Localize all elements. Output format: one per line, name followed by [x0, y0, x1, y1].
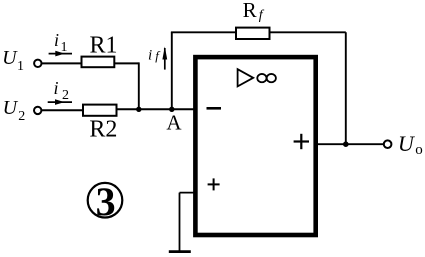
feedback wire top left	[171, 31, 236, 33]
svg-text:U: U	[398, 131, 416, 156]
wire R2 to op-amp inverting input	[117, 108, 196, 110]
terminal U2	[34, 107, 41, 114]
label U1	[2, 47, 24, 74]
terminal U1	[34, 60, 41, 67]
label Uo	[398, 131, 423, 158]
wire corner down to junction	[138, 62, 140, 109]
op-amp output plus sign	[294, 134, 309, 149]
wire node A up to feedback	[171, 32, 173, 109]
label if	[148, 47, 161, 63]
op-amp non-inverting input plus sign	[208, 178, 220, 190]
ground wire horizontal	[180, 192, 197, 194]
op-amp gain triangle	[238, 69, 254, 86]
figure number circle 3	[88, 179, 123, 224]
label U2	[3, 97, 26, 124]
wire R1 to corner	[114, 62, 139, 64]
current arrow i1	[49, 51, 72, 57]
terminal Uo	[384, 140, 392, 148]
wire U1 to R1	[42, 62, 82, 64]
output wire	[318, 143, 384, 145]
resistor R2	[83, 105, 117, 116]
svg-text:i: i	[54, 78, 59, 98]
feedback wire top right	[270, 31, 346, 33]
op-amp U1 body	[195, 57, 315, 235]
label i1	[54, 30, 68, 55]
svg-text:1: 1	[17, 59, 24, 74]
ground bar	[169, 250, 191, 253]
svg-text:3: 3	[96, 179, 116, 224]
svg-text:U: U	[3, 97, 19, 119]
junction dot	[136, 107, 141, 112]
svg-text:R2: R2	[89, 116, 117, 142]
node A dot	[169, 107, 174, 112]
op-amp inverting input minus sign	[207, 107, 222, 110]
wire U2 to R2	[42, 109, 83, 111]
current arrow i2	[48, 99, 72, 105]
svg-text:2: 2	[18, 109, 25, 124]
svg-text:R: R	[243, 0, 257, 22]
feedback wire down to output	[345, 32, 347, 144]
svg-text:2: 2	[62, 88, 69, 103]
svg-text:R1: R1	[90, 32, 118, 58]
svg-text:o: o	[415, 142, 423, 158]
resistor Rf	[236, 28, 270, 39]
svg-text:U: U	[2, 47, 18, 69]
current arrow if	[162, 47, 167, 70]
ground wire vertical	[179, 193, 181, 252]
label Rf	[243, 0, 265, 23]
op-amp infinity symbol	[257, 74, 276, 82]
label i2	[54, 78, 70, 103]
resistor R1	[82, 57, 115, 68]
output junction dot	[343, 141, 349, 147]
svg-text:i: i	[148, 47, 152, 63]
svg-text:i: i	[54, 30, 59, 50]
svg-text:A: A	[166, 110, 182, 134]
